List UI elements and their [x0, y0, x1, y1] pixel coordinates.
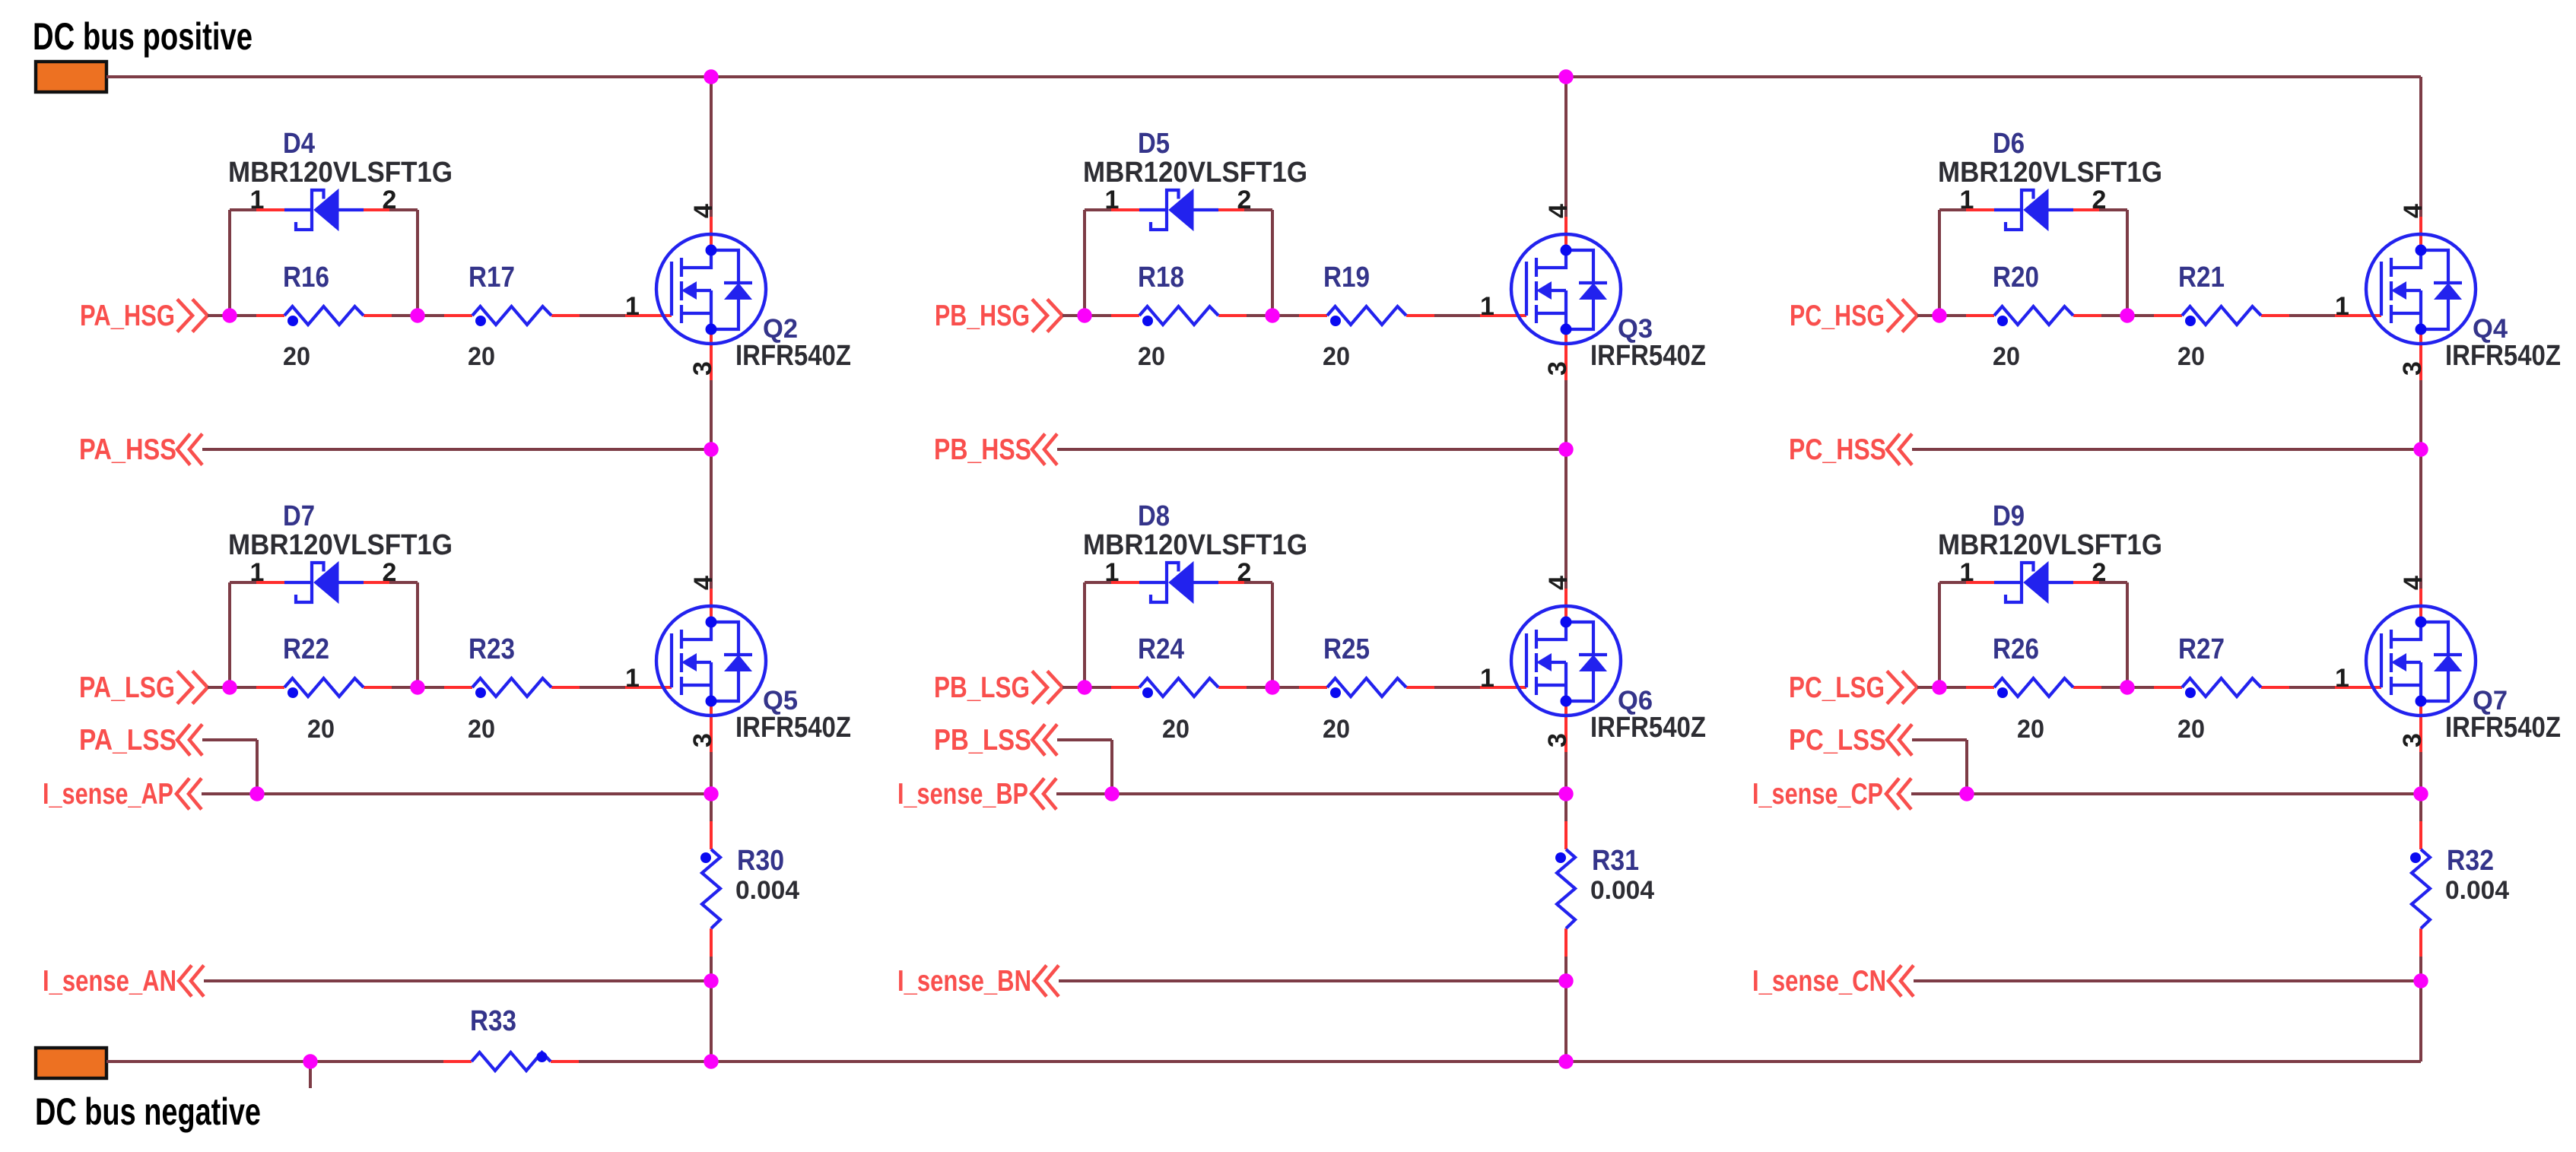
wire C HS left branch vertical	[1938, 210, 1941, 316]
wire PB_HSS	[1057, 448, 1566, 451]
junction B HSS	[1558, 442, 1573, 456]
junction A HSS	[704, 442, 718, 456]
wire C trunk mid	[2419, 380, 2422, 589]
net I_sense_CP port chevron	[1886, 779, 1911, 810]
wire DC bus negative rail right	[579, 1060, 2421, 1063]
wire A trunk to R30	[710, 794, 713, 821]
svg-text:PA_LSS: PA_LSS	[79, 724, 176, 757]
svg-text:0.004: 0.004	[735, 876, 799, 905]
wire B LS diode row left	[1085, 581, 1113, 584]
svg-text:2: 2	[1237, 558, 1252, 587]
svg-text:20: 20	[1993, 342, 2020, 371]
wire C trunk bottom	[2419, 981, 2422, 1062]
svg-text:I_sense_BP: I_sense_BP	[897, 778, 1028, 811]
resistor R22 low-side	[256, 678, 392, 698]
resistor R32 shunt	[2410, 821, 2430, 957]
svg-text:I_sense_AP: I_sense_AP	[43, 778, 173, 811]
junction C LS gate right	[2120, 680, 2134, 694]
wire A trunk below Q5	[710, 752, 713, 794]
diode D7 MBR120VLSFT1G low-side	[256, 562, 389, 603]
svg-text:MBR120VLSFT1G: MBR120VLSFT1G	[228, 157, 453, 189]
svg-text:20: 20	[1162, 715, 1190, 744]
svg-text:0.004: 0.004	[1590, 876, 1654, 905]
junction top bus phase A	[704, 69, 718, 84]
svg-text:I_sense_CP: I_sense_CP	[1752, 778, 1883, 811]
wire A LS junction to R22	[230, 686, 256, 689]
wire A LS left branch vertical	[228, 582, 231, 687]
resistor R21 high-side	[2154, 306, 2289, 326]
junction C HSS	[2413, 442, 2428, 456]
resistor R30 shunt	[700, 821, 720, 957]
resistor R24 low-side	[1111, 678, 1247, 698]
net I_sense_CN port chevron	[1888, 966, 1914, 997]
wire A HS left branch vertical	[228, 210, 231, 316]
wire B LS diode row right	[1244, 581, 1272, 584]
wire B trunk below Q6	[1564, 752, 1568, 794]
wire junction to R23	[418, 686, 444, 689]
net PC_HSS port chevron	[1887, 434, 1912, 465]
svg-text:3: 3	[1543, 733, 1572, 747]
svg-text:3: 3	[688, 733, 717, 747]
resistor R16 high-side	[256, 306, 392, 326]
svg-text:2: 2	[2092, 558, 2107, 587]
svg-text:4: 4	[689, 204, 718, 218]
wire B HS junction to R18	[1085, 314, 1111, 317]
net PB_HSG port chevron	[1032, 300, 1062, 332]
wire C HS diode row right	[2099, 208, 2127, 211]
wire C HS diode row left	[1939, 208, 1968, 211]
wire stub below DC bus negative	[309, 1062, 312, 1088]
transistor Q5 IRFR540Z low-side	[625, 589, 766, 754]
svg-text:4: 4	[689, 576, 718, 590]
wire C trunk to R32	[2419, 794, 2422, 821]
net PB_HSS port chevron	[1032, 434, 1057, 465]
svg-text:R25: R25	[1323, 633, 1370, 665]
diode D4 MBR120VLSFT1G high-side	[256, 189, 389, 230]
junction I_sense_CN at trunk	[2413, 973, 2428, 988]
wire R32 to I_sense_CN	[2419, 957, 2422, 981]
wire R20 to junction	[2101, 314, 2127, 317]
wire junction to R17	[418, 314, 444, 317]
svg-text:3: 3	[688, 361, 717, 376]
svg-text:20: 20	[1323, 715, 1350, 744]
wire PA_LSS horizontal	[202, 738, 257, 741]
svg-text:PC_HSS: PC_HSS	[1789, 433, 1886, 466]
svg-text:1: 1	[625, 292, 640, 321]
svg-text:4: 4	[1544, 576, 1573, 590]
wire R25 to Q6 gate	[1434, 686, 1480, 689]
junction B LS gate right	[1265, 680, 1279, 694]
wire PB_LSG to junction	[1062, 686, 1085, 689]
svg-text:PA_HSS: PA_HSS	[79, 433, 176, 466]
svg-text:MBR120VLSFT1G: MBR120VLSFT1G	[1083, 157, 1307, 189]
wire R23 to Q5 gate	[580, 686, 625, 689]
junction I_sense_CP at trunk	[2413, 786, 2428, 801]
svg-text:D5: D5	[1138, 128, 1170, 160]
wire PB_LSS vertical	[1110, 740, 1113, 794]
wire junction to R21	[2127, 314, 2154, 317]
svg-text:PC_LSS: PC_LSS	[1789, 724, 1886, 757]
wire C LS diode row right	[2099, 581, 2127, 584]
junction C LS gate left	[1932, 680, 1946, 694]
svg-text:20: 20	[283, 342, 310, 371]
wire junction to R25	[1272, 686, 1299, 689]
net PA_HSG port chevron	[177, 300, 208, 332]
wire I_sense_AN	[204, 979, 711, 982]
junction A LS gate right	[410, 680, 424, 694]
wire A LS diode row left	[230, 581, 258, 584]
resistor R26 low-side	[1966, 678, 2101, 698]
wire PA_LSG to junction	[208, 686, 230, 689]
junction I_sense_BP at trunk	[1558, 786, 1573, 801]
net PB_LSG port chevron	[1032, 671, 1062, 704]
svg-text:MBR120VLSFT1G: MBR120VLSFT1G	[1938, 529, 2162, 561]
resistor R20 high-side	[1966, 306, 2101, 326]
wire A HS diode row right	[389, 208, 418, 211]
diode D8 MBR120VLSFT1G low-side	[1111, 562, 1244, 603]
svg-text:1: 1	[250, 558, 265, 587]
svg-text:DC bus negative: DC bus negative	[35, 1090, 261, 1133]
wire C trunk below Q7	[2419, 752, 2422, 794]
junction top bus phase B	[1558, 69, 1573, 84]
svg-text:20: 20	[1138, 342, 1165, 371]
wire R16 to junction	[392, 314, 418, 317]
wire C LS left branch vertical	[1938, 582, 1941, 687]
svg-text:R31: R31	[1592, 845, 1639, 877]
wire R22 to junction	[392, 686, 418, 689]
svg-text:IRFR540Z: IRFR540Z	[2445, 712, 2561, 744]
svg-text:R17: R17	[469, 262, 515, 294]
svg-text:2: 2	[383, 186, 397, 214]
svg-text:MBR120VLSFT1G: MBR120VLSFT1G	[1938, 157, 2162, 189]
port DC bus positive	[36, 62, 106, 92]
net PA_LSG port chevron	[177, 671, 208, 704]
svg-text:3: 3	[2398, 733, 2427, 747]
junction I_sense_AP at LSS	[249, 786, 264, 801]
wire R19 to Q3 gate	[1434, 314, 1480, 317]
svg-text:I_sense_AN: I_sense_AN	[43, 965, 176, 998]
svg-text:1: 1	[2335, 292, 2349, 321]
svg-text:1: 1	[1960, 186, 1974, 214]
wire PC_HSG to junction	[1917, 314, 1939, 317]
svg-text:4: 4	[2399, 576, 2428, 590]
svg-text:1: 1	[1480, 292, 1494, 321]
net PA_LSS port chevron	[177, 725, 202, 756]
svg-text:IRFR540Z: IRFR540Z	[2445, 340, 2561, 372]
wire R18 to junction	[1247, 314, 1272, 317]
wire DC bus negative rail left	[106, 1060, 444, 1063]
svg-text:20: 20	[2177, 715, 2205, 744]
transistor Q2 IRFR540Z high-side	[625, 217, 766, 382]
wire R21 to Q4 gate	[2289, 314, 2335, 317]
svg-text:R19: R19	[1323, 262, 1370, 294]
wire R17 to Q2 gate	[580, 314, 625, 317]
wire B LS left branch vertical	[1083, 582, 1086, 687]
diode D5 MBR120VLSFT1G high-side	[1111, 189, 1244, 230]
junction DC bus negative stub	[303, 1054, 317, 1068]
svg-text:R22: R22	[283, 633, 329, 665]
diode D9 MBR120VLSFT1G low-side	[1966, 562, 2099, 603]
junction I_sense_BN at trunk	[1558, 973, 1573, 988]
wire I_sense_CP	[1911, 792, 2421, 795]
svg-text:1: 1	[2335, 664, 2349, 693]
wire PC_HSS	[1912, 448, 2421, 451]
wire C LS junction to R26	[1939, 686, 1966, 689]
wire I_sense_BP	[1056, 792, 1566, 795]
svg-text:2: 2	[1237, 186, 1252, 214]
wire R30 to I_sense_AN	[710, 957, 713, 981]
wire B HS diode row left	[1085, 208, 1113, 211]
svg-text:I_sense_CN: I_sense_CN	[1752, 965, 1886, 998]
resistor R17 high-side	[444, 306, 580, 326]
net I_sense_AP port chevron	[176, 779, 202, 810]
junction B HS gate left	[1077, 308, 1091, 322]
wire A LS diode row right	[389, 581, 418, 584]
wire A trunk top	[710, 77, 713, 217]
wire I_sense_AP	[202, 792, 711, 795]
resistor R19 high-side	[1299, 306, 1434, 326]
svg-text:D6: D6	[1993, 128, 2025, 160]
svg-text:4: 4	[1544, 204, 1573, 218]
svg-text:IRFR540Z: IRFR540Z	[1590, 712, 1706, 744]
svg-text:4: 4	[2399, 204, 2428, 218]
wire B HS right branch vertical	[1271, 210, 1274, 316]
wire B HS left branch vertical	[1083, 210, 1086, 316]
svg-text:20: 20	[468, 715, 495, 744]
wire R27 to Q7 gate	[2289, 686, 2335, 689]
svg-text:20: 20	[307, 715, 335, 744]
wire PA_LSS vertical	[256, 740, 259, 794]
wire A HS right branch vertical	[416, 210, 419, 316]
wire B HS diode row right	[1244, 208, 1272, 211]
wire R31 to I_sense_BN	[1564, 957, 1568, 981]
svg-text:R23: R23	[469, 633, 515, 665]
net I_sense_BP port chevron	[1031, 779, 1056, 810]
junction I_sense_BP at LSS	[1104, 786, 1119, 801]
svg-text:PB_HSS: PB_HSS	[934, 433, 1031, 466]
svg-text:PC_HSG: PC_HSG	[1790, 300, 1885, 332]
svg-text:0.004: 0.004	[2445, 876, 2509, 905]
wire B trunk mid	[1564, 380, 1568, 589]
svg-text:R21: R21	[2178, 262, 2225, 294]
junction bottom bus phase A	[704, 1054, 718, 1068]
net PA_HSS port chevron	[177, 434, 202, 465]
wire A HS junction to R16	[230, 314, 256, 317]
svg-text:1: 1	[1105, 186, 1120, 214]
svg-text:IRFR540Z: IRFR540Z	[1590, 340, 1706, 372]
wire C HS right branch vertical	[2126, 210, 2129, 316]
net I_sense_BN port chevron	[1034, 966, 1059, 997]
svg-text:2: 2	[2092, 186, 2107, 214]
svg-text:PB_HSG: PB_HSG	[935, 300, 1030, 332]
junction A HS gate right	[410, 308, 424, 322]
transistor Q7 IRFR540Z low-side	[2335, 589, 2476, 754]
wire A LS right branch vertical	[416, 582, 419, 687]
svg-text:PB_LSG: PB_LSG	[934, 671, 1030, 704]
junction bottom bus phase B	[1558, 1054, 1573, 1068]
svg-text:PC_LSG: PC_LSG	[1789, 671, 1885, 704]
net PC_HSG port chevron	[1887, 300, 1917, 332]
svg-text:1: 1	[1480, 664, 1494, 693]
net PC_LSS port chevron	[1887, 725, 1912, 756]
transistor Q4 IRFR540Z high-side	[2335, 217, 2476, 382]
resistor R33	[443, 1052, 579, 1071]
svg-text:PB_LSS: PB_LSS	[934, 724, 1031, 757]
resistor R31 shunt	[1555, 821, 1575, 957]
svg-text:I_sense_BN: I_sense_BN	[897, 965, 1031, 998]
svg-text:20: 20	[2017, 715, 2044, 744]
svg-text:MBR120VLSFT1G: MBR120VLSFT1G	[228, 529, 453, 561]
svg-text:R16: R16	[283, 262, 329, 294]
svg-text:D8: D8	[1138, 500, 1170, 532]
svg-text:1: 1	[1105, 558, 1120, 587]
wire B LS junction to R24	[1085, 686, 1111, 689]
resistor R27 low-side	[2154, 678, 2289, 698]
resistor R23 low-side	[444, 678, 580, 698]
svg-text:D9: D9	[1993, 500, 2025, 532]
svg-text:20: 20	[468, 342, 495, 371]
net I_sense_AN port chevron	[179, 966, 204, 997]
wire C HS junction to R20	[1939, 314, 1966, 317]
transistor Q3 IRFR540Z high-side	[1480, 217, 1621, 382]
wire B trunk to R31	[1564, 794, 1568, 821]
net PC_LSG port chevron	[1887, 671, 1917, 704]
svg-text:2: 2	[383, 558, 397, 587]
svg-text:R33: R33	[470, 1005, 516, 1037]
wire R26 to junction	[2101, 686, 2127, 689]
svg-text:R20: R20	[1993, 262, 2039, 294]
svg-text:DC bus positive: DC bus positive	[33, 15, 253, 58]
svg-text:R24: R24	[1138, 633, 1184, 665]
wire A trunk bottom	[710, 981, 713, 1062]
wire PB_HSG to junction	[1062, 314, 1085, 317]
wire PA_HSG to junction	[208, 314, 230, 317]
resistor R18 high-side	[1111, 306, 1247, 326]
svg-text:20: 20	[2177, 342, 2205, 371]
svg-text:IRFR540Z: IRFR540Z	[735, 340, 851, 372]
wire C LS right branch vertical	[2126, 582, 2129, 687]
wire I_sense_CN	[1914, 979, 2421, 982]
junction I_sense_AN at trunk	[704, 973, 718, 988]
wire PC_LSS vertical	[1965, 740, 1968, 794]
wire I_sense_BN	[1059, 979, 1566, 982]
svg-text:D4: D4	[283, 128, 315, 160]
wire B LS right branch vertical	[1271, 582, 1274, 687]
wire B trunk bottom	[1564, 981, 1568, 1062]
wire B trunk top	[1564, 77, 1568, 217]
svg-text:IRFR540Z: IRFR540Z	[735, 712, 851, 744]
wire R24 to junction	[1247, 686, 1272, 689]
net PB_LSS port chevron	[1032, 725, 1057, 756]
wire C trunk top	[2419, 77, 2422, 217]
svg-text:R30: R30	[737, 845, 784, 877]
svg-text:R26: R26	[1993, 633, 2039, 665]
wire junction to R27	[2127, 686, 2154, 689]
junction I_sense_CP at LSS	[1959, 786, 1974, 801]
svg-text:1: 1	[1960, 558, 1974, 587]
transistor Q6 IRFR540Z low-side	[1480, 589, 1621, 754]
wire A trunk mid	[710, 380, 713, 589]
svg-text:R18: R18	[1138, 262, 1184, 294]
junction B HS gate right	[1265, 308, 1279, 322]
svg-text:1: 1	[250, 186, 265, 214]
svg-text:3: 3	[1543, 361, 1572, 376]
svg-text:PA_LSG: PA_LSG	[79, 671, 175, 704]
junction I_sense_AP at trunk	[704, 786, 718, 801]
svg-text:R32: R32	[2447, 845, 2494, 877]
svg-text:3: 3	[2398, 361, 2427, 376]
junction C HS gate left	[1932, 308, 1946, 322]
svg-text:MBR120VLSFT1G: MBR120VLSFT1G	[1083, 529, 1307, 561]
svg-text:D7: D7	[283, 500, 315, 532]
junction B LS gate left	[1077, 680, 1091, 694]
svg-text:20: 20	[1323, 342, 1350, 371]
junction A LS gate left	[222, 680, 237, 694]
resistor R25 low-side	[1299, 678, 1434, 698]
wire PA_HSS	[202, 448, 711, 451]
diode D6 MBR120VLSFT1G high-side	[1966, 189, 2099, 230]
wire DC bus positive rail	[106, 75, 2421, 78]
wire junction to R19	[1272, 314, 1299, 317]
svg-text:1: 1	[625, 664, 640, 693]
wire PB_LSS horizontal	[1057, 738, 1112, 741]
junction C HS gate right	[2120, 308, 2134, 322]
wire C LS diode row left	[1939, 581, 1968, 584]
svg-text:PA_HSG: PA_HSG	[80, 300, 175, 332]
wire PC_LSG to junction	[1917, 686, 1939, 689]
junction A HS gate left	[222, 308, 237, 322]
wire PC_LSS horizontal	[1912, 738, 1967, 741]
port DC bus negative	[36, 1048, 106, 1078]
svg-text:R27: R27	[2178, 633, 2225, 665]
wire A HS diode row left	[230, 208, 258, 211]
